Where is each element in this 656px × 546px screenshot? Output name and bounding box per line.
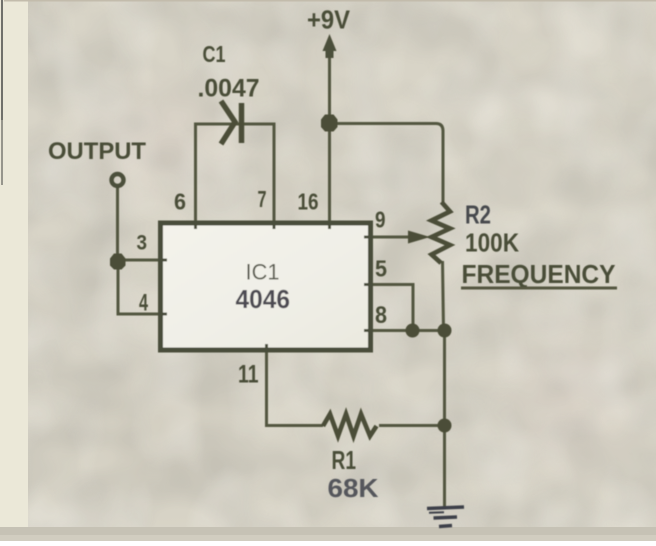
svg-text:9: 9 [375,207,386,233]
svg-text:68K: 68K [328,473,379,503]
svg-text:100K: 100K [465,228,519,258]
svg-text:6: 6 [174,189,186,215]
svg-text:OUTPUT: OUTPUT [48,138,146,165]
svg-text:.0047: .0047 [198,75,260,103]
svg-text:11: 11 [238,361,259,389]
svg-text:3: 3 [137,232,148,255]
svg-text:R1: R1 [332,445,357,475]
svg-text:+9V: +9V [307,5,351,35]
svg-text:4: 4 [139,290,148,317]
svg-text:C1: C1 [203,41,226,67]
svg-text:5: 5 [375,256,387,282]
svg-text:4046: 4046 [236,284,291,314]
svg-text:7: 7 [258,186,267,212]
svg-text:R2: R2 [465,200,491,230]
svg-text:16: 16 [298,189,319,215]
svg-text:FREQUENCY: FREQUENCY [462,259,616,289]
svg-text:IC1: IC1 [246,260,280,285]
svg-text:8: 8 [375,302,387,329]
